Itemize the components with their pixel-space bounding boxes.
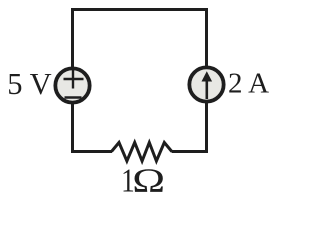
resistor R1 zigzag <box>112 143 172 162</box>
current source I1 circle <box>189 67 223 101</box>
wire bottom-left segment <box>71 150 112 153</box>
voltage source V1 plus sign <box>64 69 84 89</box>
wire bottom-right segment <box>172 150 209 153</box>
wire right <box>205 8 208 153</box>
svg-text:Ω: Ω <box>132 161 165 198</box>
current source I1 arrow shaft <box>206 80 209 99</box>
svg-text:5 V: 5 V <box>7 67 51 101</box>
voltage source V1 circle <box>55 68 89 102</box>
wire top <box>71 8 208 11</box>
current source I1 arrow head <box>202 71 213 81</box>
voltage source V1 minus sign <box>65 96 82 98</box>
svg-text:2 A: 2 A <box>228 68 269 100</box>
wire left <box>71 8 74 153</box>
